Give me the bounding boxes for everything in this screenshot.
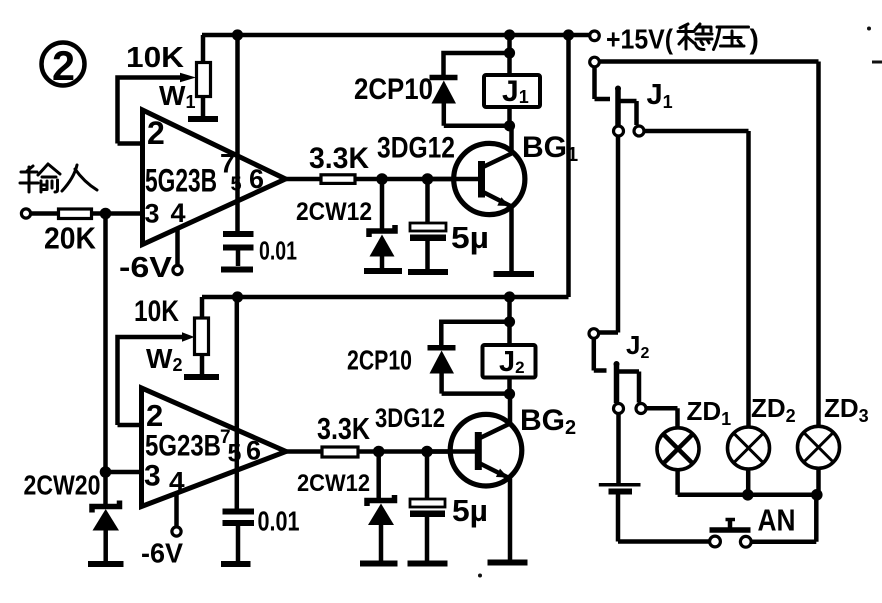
svg-text:-6V: -6V [141,538,183,569]
svg-text:2: 2 [147,115,165,151]
svg-text:3DG12: 3DG12 [377,132,455,165]
svg-text:6: 6 [246,436,261,466]
svg-text:2CW12: 2CW12 [296,198,372,226]
svg-text:2CP10: 2CP10 [354,73,433,106]
svg-text:2CP10: 2CP10 [347,345,412,376]
svg-text:AN: AN [758,503,796,538]
svg-text:4: 4 [171,198,186,228]
svg-text:6: 6 [249,164,264,194]
svg-text:2CW12: 2CW12 [297,470,370,497]
svg-text:3: 3 [145,199,160,229]
svg-text:5: 5 [228,440,242,468]
svg-text:5G23B: 5G23B [145,163,217,199]
svg-text:3.3K: 3.3K [317,411,370,446]
svg-text:20K: 20K [44,221,97,256]
svg-text:2CW20: 2CW20 [24,470,101,501]
svg-text:10K: 10K [134,295,179,328]
svg-text:3DG12: 3DG12 [375,403,445,433]
svg-text:5µ: 5µ [451,220,489,255]
svg-text:2: 2 [52,42,75,89]
svg-text:): ) [750,24,759,55]
svg-text:3: 3 [144,460,161,493]
svg-text:0.01: 0.01 [258,506,300,537]
svg-text:3.3K: 3.3K [309,142,369,175]
svg-text:2: 2 [146,398,163,433]
svg-text:5µ: 5µ [452,493,488,528]
svg-text:5G23B: 5G23B [145,430,221,463]
svg-text:10K: 10K [126,42,184,74]
svg-text:-6V: -6V [119,252,173,284]
svg-text:+15V(: +15V( [606,24,674,55]
svg-text:0.01: 0.01 [259,236,297,266]
